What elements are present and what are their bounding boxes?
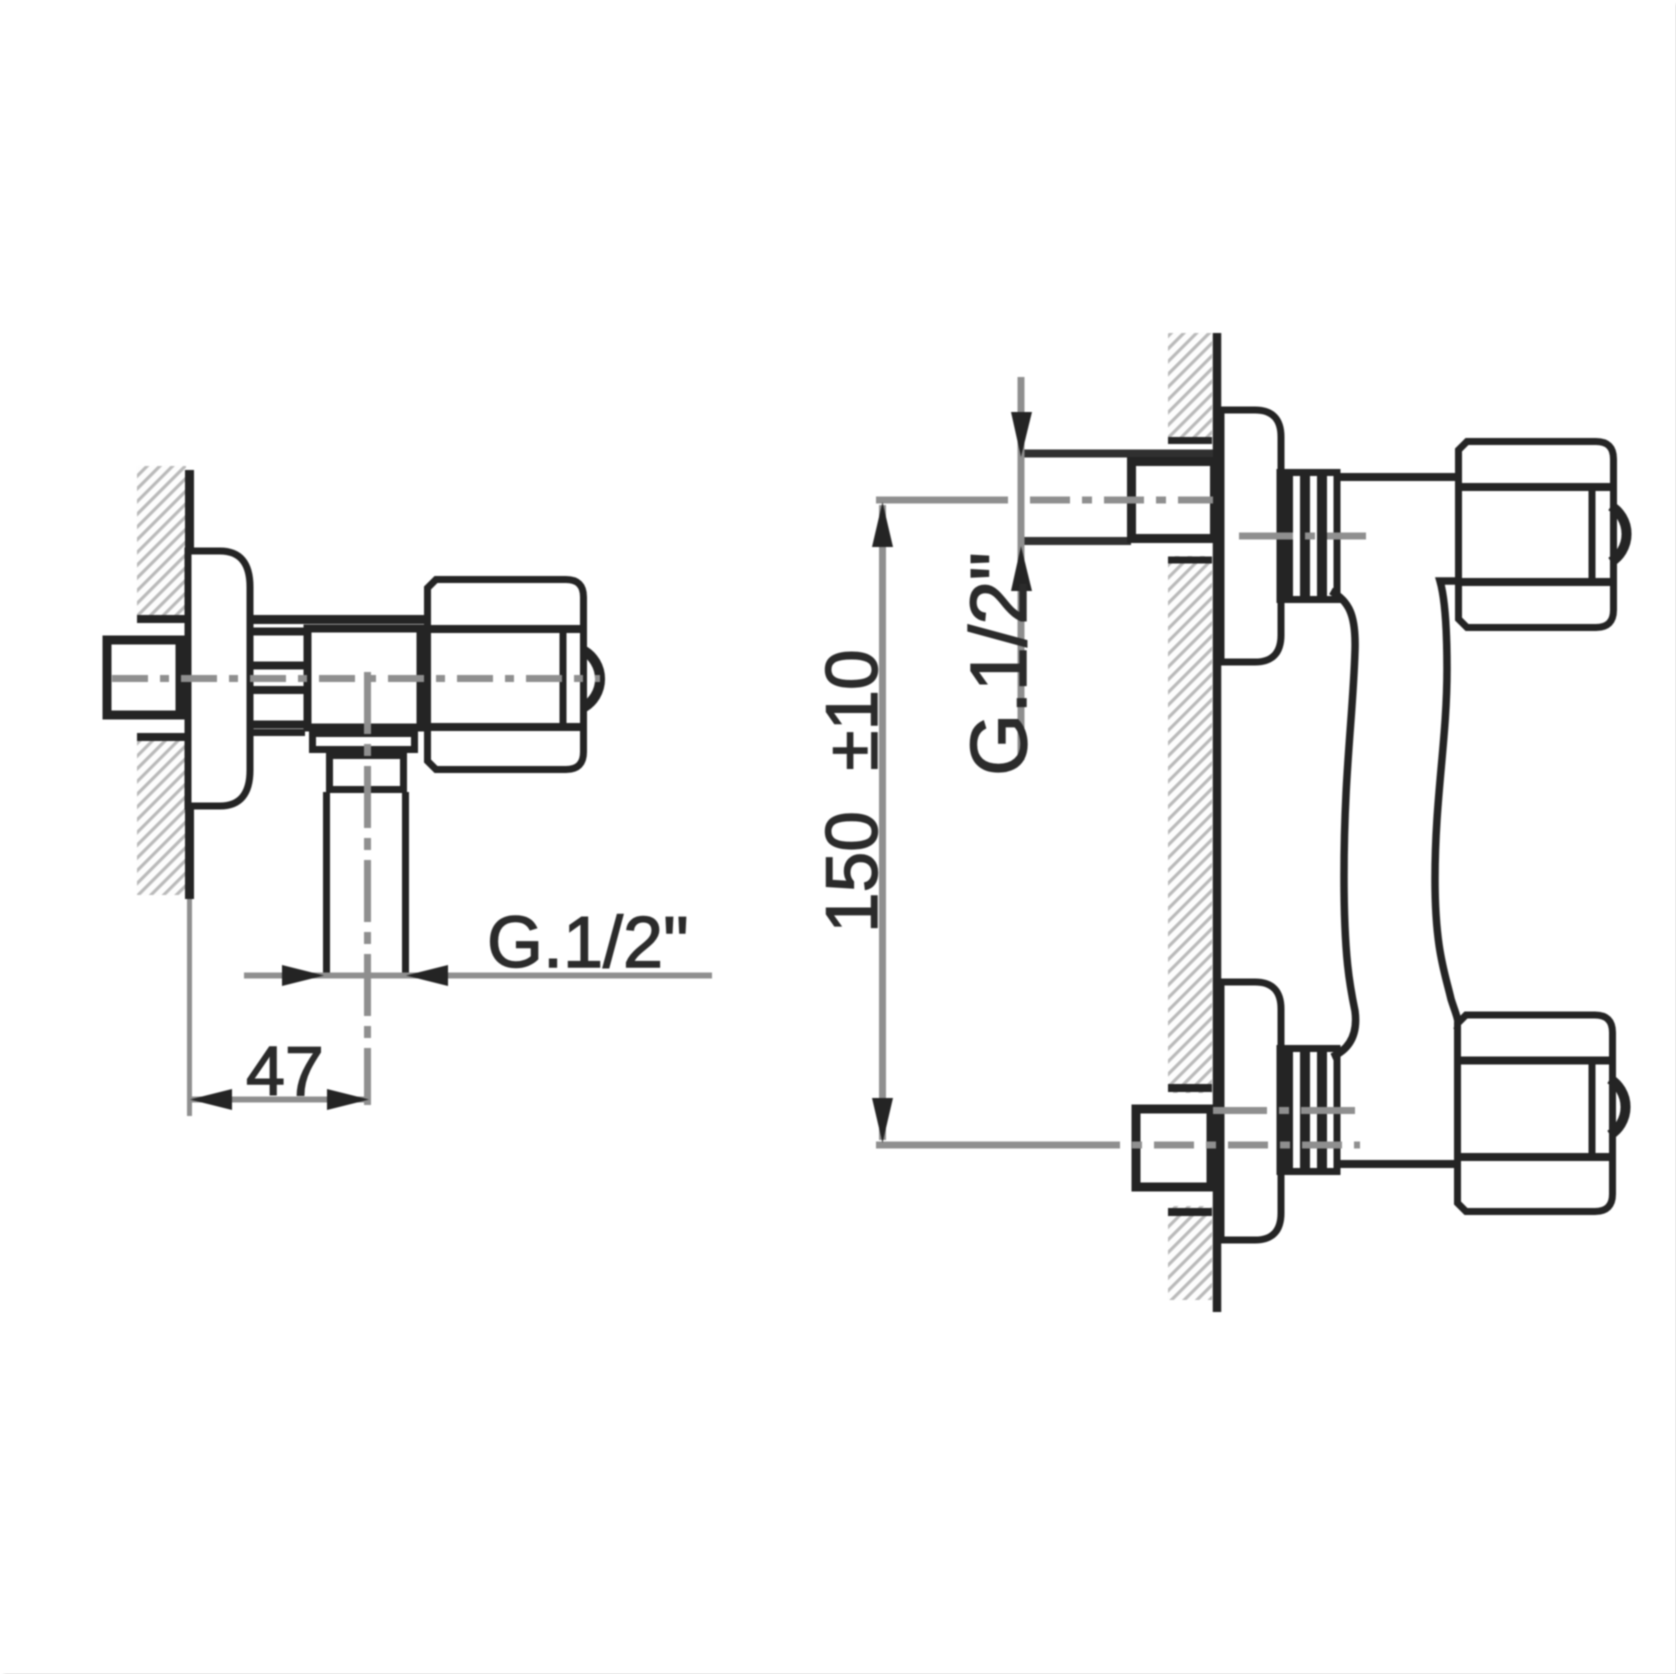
bottom inlet square fitting [1136,1109,1211,1187]
svg-text:47: 47 [246,1032,324,1110]
G.1/2 dimension line (front view) [1018,377,1025,760]
150 dimension line [879,505,886,1140]
47 right arrow [327,1089,369,1110]
handle nut facet line lower [428,723,584,731]
handle nut inner vertical line [560,629,567,727]
47 dimension line [189,1097,370,1103]
handle nut end bump [585,651,601,707]
top knob facet line upper [1459,483,1614,491]
outlet pipe left wall [323,792,330,975]
body tube left edge [1331,591,1356,1057]
body tube right edge [1435,581,1458,1030]
wall hole bottom edge [137,733,186,741]
150 down arrow [872,1098,893,1143]
150 up arrow [872,502,893,547]
wall hole top edge [137,615,186,623]
svg-text:G.1/2": G.1/2" [487,903,689,983]
wall face line (front view) [1213,333,1222,1312]
top knob inner vertical line [1589,487,1596,582]
top hole upper edge [1168,437,1212,444]
horizontal centerline [112,675,600,682]
top knurled union nut [1280,473,1337,600]
top port upper line [1336,473,1457,481]
thread line 3 [253,662,305,670]
bottom knurled union nut [1280,1049,1337,1172]
wall face line [185,470,194,899]
wall hatch (side view) [130,466,186,895]
G.1/2 right arrow [406,965,448,986]
G.1/2 down arrow [1011,412,1032,457]
escutcheon plate (side) [188,551,250,806]
svg-text:150 ±10: 150 ±10 [812,649,893,933]
G.1/2 left arrow [282,965,324,986]
top escutcheon plate (front) [1221,410,1281,662]
bottom knob facet line lower [1458,1153,1613,1161]
top pipe centerline / 150 top extension [876,497,1008,504]
thread line 2 [253,628,306,636]
top knob facet line lower [1459,578,1614,586]
bottom knob facet line upper [1458,1057,1613,1065]
bottom pipe centerline / 150 bottom extension [876,1142,1080,1149]
47 left arrow [190,1089,232,1110]
bottom hole upper edge [1168,1084,1212,1092]
top supply pipe lower edge [1022,537,1131,545]
thread line 5 [253,721,305,729]
bottom knob end bump [1610,1079,1626,1135]
vertical outlet centerline [364,672,371,1105]
top hole lower edge [1168,557,1212,564]
bottom hole lower edge [1168,1208,1212,1216]
outlet locknut [330,756,404,790]
wall hatch (front view) [1164,333,1213,1300]
G.1/2 dimension line (left view) [244,973,712,979]
bottom port lower line [1336,1160,1455,1168]
top supply pipe upper edge [1022,450,1213,458]
inlet square fitting [107,640,180,715]
top port centerline [1239,533,1366,540]
thread line 4 [253,686,305,694]
outlet pipe right wall [402,792,409,975]
bottom knob inner vertical line [1589,1061,1596,1158]
top knob end bump [1611,506,1627,562]
bottom port centerline [1213,1107,1358,1114]
valve body [308,629,421,728]
bottom hex knob [1458,1015,1613,1212]
bottom escutcheon plate (front) [1221,982,1281,1240]
threaded nipple bottom edge [253,729,305,736]
svg-text:G.1/2": G.1/2" [954,552,1043,776]
outlet flange [313,734,415,750]
threaded nipple top edge [253,615,424,624]
handle nut (side) [428,580,584,770]
top inlet square fitting [1132,462,1215,539]
wall line extension (47 dim) [187,899,192,1116]
handle nut facet line upper [428,625,584,633]
top hex knob [1459,442,1614,628]
G.1/2 up arrow [1011,546,1032,591]
